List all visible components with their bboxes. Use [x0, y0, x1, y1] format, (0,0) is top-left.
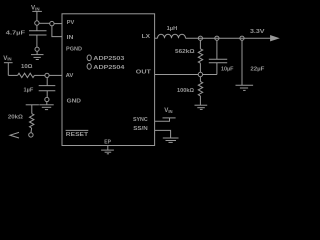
ground GND3 [195, 105, 208, 109]
capacitor C4 10uF (feedforward) [203, 40, 234, 74]
node 3.3V output arrow [250, 29, 278, 41]
svg-text:PGND: PGND [66, 46, 82, 52]
wire R4 to ground [199, 96, 201, 105]
svg-text:IN: IN [67, 35, 74, 41]
wire J3 down to C2 [46, 78, 48, 86]
capacitor C5 22uF [242, 40, 265, 85]
ground GND6 [101, 150, 114, 154]
ground GND1 [31, 51, 44, 59]
IC label ADP2504 [87, 64, 125, 71]
svg-text:SYNC: SYNC [133, 117, 148, 123]
node VIN (right pull-up terminal) [163, 107, 176, 118]
wire pin OUT to FB node [155, 74, 199, 76]
resistor R3 562kohm [175, 40, 203, 63]
svg-text:100kΩ: 100kΩ [177, 88, 195, 94]
svg-text:1µH: 1µH [167, 26, 178, 32]
wire EP to ground [107, 146, 109, 151]
ground GND2 [39, 102, 53, 110]
junction J1 [35, 21, 39, 25]
svg-text:10µF: 10µF [221, 66, 234, 72]
junction FB node [198, 72, 202, 76]
svg-text:SS/N: SS/N [133, 126, 148, 132]
wire R3 to FB node [199, 63, 201, 72]
inductor L1 1uH [158, 26, 186, 38]
wire R2 to terminal circle [30, 128, 33, 133]
wire output rail [186, 37, 271, 39]
open terminal circle [29, 133, 33, 137]
svg-text:ADP2503: ADP2503 [93, 56, 124, 62]
wire J1 to J2 [39, 22, 50, 24]
svg-text:VIN: VIN [164, 107, 172, 114]
capacitor C1 4.7uF [6, 25, 47, 36]
svg-text:AV: AV [66, 73, 75, 79]
wire J2 down to pin IN [52, 26, 62, 37]
svg-text:LX: LX [142, 34, 151, 40]
wire VIN to R1 [8, 74, 17, 76]
resistor R2 20kohm [8, 114, 34, 128]
IC U1 ADP2503/ADP2504 regulator body [62, 14, 155, 146]
IC label ADP2503 [87, 55, 124, 62]
wire SS to ground [155, 130, 171, 137]
svg-text:20kΩ: 20kΩ [8, 115, 24, 121]
wire R1 to J3 [34, 74, 45, 76]
wire J3 to pin AV [49, 74, 62, 76]
arrow left (signal out) [10, 132, 19, 138]
svg-text:ADP2504: ADP2504 [93, 65, 125, 71]
node circle above GND1 [35, 47, 39, 51]
node circle above GND2 [45, 97, 49, 101]
svg-text:3.3V: 3.3V [250, 29, 265, 35]
junction J4 [198, 36, 202, 40]
svg-text:EP: EP [104, 139, 111, 145]
svg-text:RESET: RESET [66, 132, 88, 138]
ground GND4 [236, 85, 254, 90]
wire J2 to pin PV [54, 23, 62, 25]
junction J6 [240, 36, 244, 40]
resistor R1 10ohm [18, 64, 35, 78]
svg-text:PV: PV [67, 20, 75, 26]
junction J3 [45, 73, 49, 77]
svg-text:VIN: VIN [3, 55, 11, 62]
resistor R4 100kohm [177, 77, 203, 96]
wire C2 to ground node [46, 91, 48, 98]
pin RESET (active low) [66, 130, 89, 137]
svg-text:4.7µF: 4.7µF [6, 31, 26, 37]
svg-text:1µF: 1µF [24, 87, 34, 93]
node VIN (lower left input terminal) [3, 55, 12, 75]
node VIN (top input terminal) [31, 5, 42, 21]
svg-text:VIN: VIN [31, 5, 40, 12]
ground GND5 [163, 138, 179, 142]
svg-text:10Ω: 10Ω [21, 64, 33, 70]
svg-text:22µF: 22µF [250, 66, 265, 72]
wire SYNC to VIN [155, 118, 170, 121]
svg-text:562kΩ: 562kΩ [175, 49, 195, 55]
wire C1 to ground node [36, 35, 38, 47]
junction J2 [50, 21, 54, 25]
wire LX to inductor [155, 37, 158, 39]
terminal bar above R2 [26, 105, 39, 114]
svg-text:GND: GND [67, 98, 82, 104]
junction J5 [215, 36, 219, 40]
svg-text:OUT: OUT [136, 70, 151, 76]
capacitor C2 1uF [24, 86, 56, 94]
